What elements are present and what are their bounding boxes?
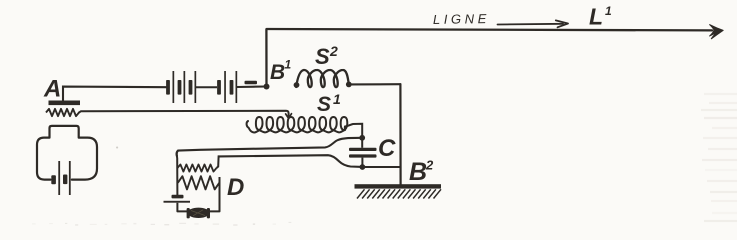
svg-text:S: S bbox=[315, 44, 330, 69]
wire line to LIGNE with arrowhead L1 bbox=[267, 25, 724, 39]
svg-text:1: 1 bbox=[285, 58, 292, 72]
battery inside transmitter box bbox=[51, 161, 70, 195]
battery in D branch (long plate) bbox=[164, 201, 191, 203]
capacitor top lead bbox=[361, 138, 363, 148]
microphone element (dark capsule) in D bottom branch bbox=[187, 208, 210, 219]
svg-text:B: B bbox=[270, 61, 285, 84]
svg-text:A: A bbox=[43, 76, 61, 103]
resistor zigzag at A bbox=[46, 109, 79, 116]
ground hatching at B2 bbox=[357, 189, 441, 198]
battery in D branch (short plate) bbox=[172, 195, 184, 199]
node at S2 right terminal bbox=[346, 82, 352, 88]
svg-text:C: C bbox=[378, 135, 396, 162]
node at capacitor top bbox=[359, 135, 365, 141]
contact bar at A bbox=[49, 101, 81, 106]
resistor zigzag lower (shunt D) bbox=[178, 176, 220, 189]
svg-text:D: D bbox=[227, 174, 244, 201]
wire from battery to node B1 bbox=[237, 85, 267, 88]
receiver bottom conductor (taper to capacitor) bbox=[219, 155, 362, 167]
wire riser to receiver bottom conductor bbox=[217, 156, 220, 168]
coil S2 bbox=[296, 70, 349, 87]
receiver top conductor (taper to capacitor) bbox=[176, 138, 362, 156]
wire from D battery down to bottom conductor bbox=[177, 177, 219, 211]
node at S2 left terminal bbox=[294, 82, 300, 88]
wire left vertical of D network bbox=[177, 151, 178, 195]
arrow after LIGNE label bbox=[498, 20, 569, 27]
svg-text:B: B bbox=[409, 158, 427, 186]
wire riser from node B1 up to line bbox=[265, 30, 267, 87]
capacitor C top plate bbox=[349, 148, 377, 151]
svg-text:1: 1 bbox=[605, 4, 612, 18]
node at capacitor bottom bbox=[360, 164, 366, 170]
faint cropped caption letter tops (page artifact) bbox=[32, 147, 291, 226]
resistor zigzag upper (series) bbox=[177, 164, 216, 171]
capacitor C bottom plate bbox=[349, 154, 377, 157]
svg-text:S: S bbox=[317, 93, 331, 116]
svg-text:LIGNE: LIGNE bbox=[433, 11, 490, 27]
svg-text:L: L bbox=[589, 4, 603, 30]
wire right vertical to B2 ground bbox=[399, 84, 401, 185]
faint page-edge streaks (scan artifact) bbox=[701, 94, 737, 221]
svg-text:2: 2 bbox=[329, 43, 338, 59]
wire from resistor to tap arrow on S1 bbox=[79, 111, 289, 117]
svg-text:2: 2 bbox=[425, 158, 434, 173]
minus sign (battery polarity) bbox=[245, 81, 258, 84]
svg-text:1: 1 bbox=[333, 91, 341, 107]
wire capacitor bottom node to B2 vertical bbox=[362, 166, 400, 168]
transmitter box outline bbox=[37, 126, 97, 180]
wire from S2 to right vertical bbox=[349, 83, 401, 85]
capacitor bottom lead bbox=[361, 158, 363, 167]
ground bar at B2 bbox=[355, 184, 442, 188]
coil S1 bbox=[247, 117, 348, 132]
node B1 bbox=[264, 84, 270, 90]
wire between battery groups bbox=[196, 86, 217, 88]
tap arrowhead onto coil S1 bbox=[286, 114, 292, 119]
battery group 2 (2 cells) bbox=[217, 71, 237, 103]
wire stub from contact bar up and right to battery bbox=[63, 87, 166, 101]
wire from S1 end down to capacitor top node bbox=[345, 124, 362, 138]
battery group 1 (3 cells) bbox=[166, 71, 196, 103]
